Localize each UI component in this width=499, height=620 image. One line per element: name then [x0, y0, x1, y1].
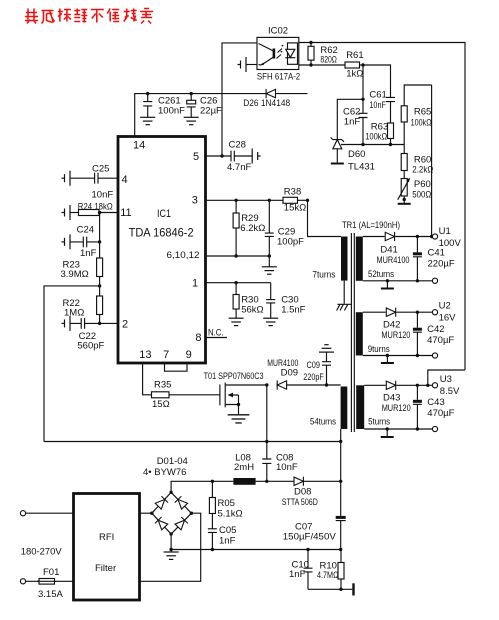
svg-text:1.5nF: 1.5nF [281, 305, 305, 316]
wire 9t bottom row [363, 355, 433, 357]
node primary bottom bus [339, 480, 342, 483]
ground T01 source [228, 415, 250, 423]
svg-text:22µF: 22µF [200, 106, 222, 117]
svg-text:4.7nF: 4.7nF [227, 162, 251, 173]
node B R63 bottom [389, 143, 392, 146]
terminal U1 [432, 226, 461, 249]
winding 7turns [312, 237, 347, 281]
svg-text:P60: P60 [414, 179, 431, 190]
svg-text:8.5V: 8.5V [440, 386, 460, 397]
wire pin5 row [206, 155, 232, 157]
node R10 bottom [339, 588, 342, 591]
node 9t gnd [386, 354, 389, 357]
wire bridge minus down [170, 534, 172, 550]
wire RFI to bridge AC1 [140, 512, 152, 514]
node C42 bottom [416, 354, 419, 357]
wire mains N [26, 580, 74, 582]
wire 52t top row [363, 236, 433, 238]
node R62 bottom [309, 63, 312, 66]
svg-text:2: 2 [122, 319, 128, 331]
terminal U3 [432, 374, 460, 397]
node C62 top [361, 98, 364, 101]
svg-text:15kΩ: 15kΩ [284, 203, 306, 214]
svg-text:100kΩ: 100kΩ [411, 118, 432, 129]
svg-text:D60: D60 [348, 149, 365, 160]
svg-text:7turns: 7turns [312, 270, 335, 281]
terminal U2 return [432, 353, 437, 358]
ground primary minus [164, 550, 179, 560]
diode D42 MUR120 [381, 308, 410, 341]
wire 9t top row [363, 311, 433, 313]
svg-text:560pF: 560pF [77, 341, 104, 352]
wire sense feedback left [44, 286, 100, 442]
capacitor C42 [413, 312, 455, 355]
wire aux winding feed [308, 200, 342, 236]
resistor R60 [401, 145, 433, 179]
svg-text:2mH: 2mH [234, 462, 254, 473]
svg-text:C43: C43 [427, 397, 444, 408]
wire U3 feedback up [428, 370, 465, 385]
transistor T01 SPP07N60C3 [204, 371, 267, 415]
svg-text:D42: D42 [383, 320, 400, 331]
terminal U3 return [432, 426, 437, 431]
capacitor C41 [413, 237, 455, 281]
capacitor C07 [283, 516, 346, 550]
capacitor C25 [62, 164, 119, 201]
ground pin 6,10,12 [262, 256, 277, 274]
optocoupler IC02 SFH 617A-2 [257, 26, 300, 83]
node pin5 [220, 154, 223, 157]
node P60 bottom [403, 198, 406, 201]
svg-text:180-270V: 180-270V [21, 547, 63, 558]
node primary bottom y442 [339, 440, 342, 443]
node C08 top [265, 440, 268, 443]
terminal U2 [432, 301, 456, 324]
wire 5t bottom row [364, 428, 432, 430]
svg-text:T01 SPP07N60C3: T01 SPP07N60C3 [204, 371, 264, 382]
ground P60 [398, 200, 411, 204]
svg-text:56kΩ: 56kΩ [241, 305, 263, 316]
diode D08 STTA 506D [282, 477, 318, 508]
node R22 bottom [98, 322, 101, 325]
svg-text:100kΩ: 100kΩ [365, 132, 387, 143]
node R23 bottom [98, 284, 101, 287]
node R29 bottom [234, 254, 237, 257]
node 52t gnd [386, 279, 389, 282]
wire pin3 row [206, 199, 284, 201]
inductor L08 [233, 453, 255, 485]
svg-text:D09: D09 [281, 368, 298, 379]
wire top feedback rail [299, 43, 465, 371]
svg-text:9: 9 [186, 349, 192, 361]
node T01 drain [265, 383, 268, 386]
resistor R24 [62, 202, 119, 221]
node U3 feedback join [426, 384, 429, 387]
svg-text:TR1 (AL=190nH): TR1 (AL=190nH) [342, 220, 400, 231]
wire drain row to winding [287, 384, 341, 386]
svg-text:MUR4100: MUR4100 [377, 255, 410, 266]
svg-text:470µF: 470µF [427, 408, 454, 419]
svg-text:470µF: 470µF [427, 335, 454, 346]
svg-text:4.7MΩ: 4.7MΩ [317, 570, 339, 581]
svg-text:TDA 16846-2: TDA 16846-2 [129, 226, 194, 240]
resistor R30 [229, 283, 264, 326]
svg-text:RFI: RFI [99, 532, 114, 543]
terminal mains N [20, 579, 25, 584]
wire R10 bottom row [308, 588, 352, 590]
red notice text [25, 9, 153, 24]
capacitor C05 [208, 525, 237, 550]
diode D41 MUR4100 [377, 232, 410, 266]
wire 52t bottom row [363, 280, 433, 282]
ground 5t return [381, 429, 394, 437]
svg-text:U2: U2 [439, 301, 451, 312]
node C43 bottom [416, 427, 419, 430]
capacitor C09 [303, 345, 334, 385]
wire drain vertical [266, 385, 268, 442]
svg-text:Filter: Filter [95, 563, 116, 574]
svg-text:C05: C05 [219, 525, 236, 536]
node U1 rail join [430, 235, 433, 238]
wire opto cathode to ground [246, 64, 257, 66]
svg-text:500Ω: 500Ω [412, 190, 431, 201]
svg-text:N.C.: N.C. [208, 328, 224, 339]
svg-text:220µF: 220µF [428, 259, 455, 270]
node C24 right [98, 240, 101, 243]
svg-text:1nF: 1nF [80, 248, 97, 259]
svg-text:14: 14 [133, 140, 145, 152]
svg-text:52turns: 52turns [368, 269, 394, 280]
node L08 bus / R05 [211, 480, 214, 483]
winding 52turns [356, 237, 394, 281]
fuse F01 3.15A [37, 567, 63, 600]
svg-text:5turns: 5turns [368, 417, 390, 428]
svg-text:3.9MΩ: 3.9MΩ [61, 269, 89, 280]
svg-text:D43: D43 [383, 393, 400, 404]
resistor R10 [317, 550, 344, 590]
ground (opto) [238, 57, 247, 72]
svg-text:16V: 16V [439, 313, 457, 324]
node C09 bottom [325, 383, 328, 386]
node C29 bottom [268, 254, 271, 257]
node C10 branch [306, 548, 309, 551]
wire U1 sense rail [431, 85, 433, 237]
capacitor C10 [289, 550, 313, 590]
svg-text:R35: R35 [154, 380, 171, 391]
wire node B row [341, 144, 404, 146]
svg-text:9turns: 9turns [368, 344, 390, 355]
capacitor C62 [343, 99, 368, 144]
wire RFI to bridge AC2 [140, 513, 201, 581]
wire pin 6,10,12 row [206, 255, 270, 257]
svg-text:D26 1N4148: D26 1N4148 [243, 98, 290, 109]
resistor R05 [209, 481, 242, 529]
diode D26 1N4148 [243, 89, 290, 109]
diode D09 MUR4100 [267, 358, 298, 390]
svg-text:U1: U1 [439, 226, 451, 237]
IC1 TDA 16846-2 [118, 137, 206, 364]
label mains voltage [21, 547, 63, 558]
svg-text:1nF: 1nF [344, 117, 361, 128]
svg-text:TL431: TL431 [348, 162, 375, 173]
svg-text:STTA 506D: STTA 506D [282, 497, 318, 508]
svg-text:820Ω: 820Ω [320, 55, 337, 66]
svg-text:1kΩ: 1kΩ [346, 69, 363, 80]
wire pin1 row [206, 282, 271, 284]
svg-text:F01: F01 [43, 567, 59, 578]
svg-text:IC1: IC1 [157, 208, 171, 220]
svg-text:C61: C61 [369, 90, 386, 101]
svg-text:6,10,12: 6,10,12 [167, 250, 200, 261]
capacitor C30 [263, 283, 305, 326]
resistor R62 [308, 43, 338, 66]
node C41 top [416, 235, 419, 238]
node C29 top [268, 199, 271, 202]
winding 9turns [356, 312, 390, 355]
svg-text:D41: D41 [380, 245, 397, 256]
svg-text:SFH 617A-2: SFH 617A-2 [257, 72, 300, 83]
svg-text:R24 18kΩ: R24 18kΩ [78, 202, 113, 213]
wire 5t top row [364, 384, 432, 386]
svg-text:54turns: 54turns [310, 417, 336, 428]
resistor R63 [365, 122, 393, 145]
svg-text:150µF/450V: 150µF/450V [283, 532, 337, 543]
wire node A down [362, 65, 364, 99]
node C05 bottom rail [211, 548, 214, 551]
svg-text:R38: R38 [284, 187, 301, 198]
svg-text:5.1kΩ: 5.1kΩ [218, 509, 243, 520]
transformer TR1 label [342, 220, 400, 231]
svg-text:IC02: IC02 [268, 26, 288, 37]
capacitor C24 [62, 225, 100, 260]
resistor R23 [61, 258, 103, 286]
wire divider vertical [99, 213, 101, 259]
node C41 bottom [416, 279, 419, 282]
svg-text:8: 8 [195, 332, 201, 344]
capacitor C29 [265, 200, 304, 256]
svg-text:R61: R61 [346, 50, 363, 61]
node R62 top [309, 41, 312, 44]
capacitor C22 [62, 316, 119, 352]
capacitor C61 [369, 90, 395, 124]
terminal U1 return [432, 278, 437, 283]
svg-text:100pF: 100pF [277, 237, 304, 248]
svg-text:C24: C24 [77, 225, 94, 236]
potentiometer P60 [398, 178, 432, 200]
node C08 bottom [265, 480, 268, 483]
svg-text:C25: C25 [92, 164, 109, 175]
svg-text:D01-04: D01-04 [157, 456, 188, 467]
ground 7turns [337, 304, 351, 310]
node C26 top [190, 92, 193, 95]
svg-text:7: 7 [163, 349, 169, 361]
svg-text:C28: C28 [229, 140, 246, 151]
svg-text:D08: D08 [294, 487, 311, 498]
node A after R61 [361, 63, 364, 66]
wire opto anode to pin5 rail [222, 43, 257, 156]
svg-text:MUR120: MUR120 [382, 403, 411, 414]
svg-text:5: 5 [193, 151, 199, 163]
svg-text:4: 4 [122, 174, 128, 186]
wire drain sense row y442 [44, 441, 341, 443]
wire ground rail y549 [171, 549, 342, 551]
node R24 right [98, 211, 101, 214]
IC1 labels [120, 140, 201, 362]
node R29 top [234, 199, 237, 202]
svg-text:10nF: 10nF [92, 190, 114, 201]
svg-text:1nF: 1nF [219, 536, 236, 547]
node R30 top [234, 281, 237, 284]
node C07 bottom [339, 548, 342, 551]
capacitor C26 [184, 94, 222, 125]
svg-text:10nF: 10nF [369, 100, 386, 111]
resistor R35 [152, 380, 220, 411]
svg-text:R05: R05 [218, 498, 235, 509]
transformer core [351, 233, 354, 432]
resistor R22 [63, 286, 103, 324]
pin 8 N.C. stub [206, 328, 228, 339]
wire pin13 to R35 [143, 363, 152, 395]
svg-text:100nF: 100nF [158, 106, 185, 117]
resistor R65 [401, 85, 431, 145]
wire opto collector row [299, 64, 345, 66]
wire 7turns return [343, 281, 345, 304]
svg-text:11: 11 [120, 207, 131, 219]
svg-text:6.2kΩ: 6.2kΩ [240, 223, 265, 234]
node 5t gnd [386, 427, 389, 430]
svg-text:10nF: 10nF [276, 462, 298, 473]
svg-text:3.15A: 3.15A [38, 589, 63, 600]
svg-text:15Ω: 15Ω [152, 399, 170, 410]
svg-text:MUR120: MUR120 [381, 330, 410, 341]
node C261 top [146, 92, 149, 95]
wire mains L [26, 512, 74, 514]
winding 54turns [310, 387, 347, 430]
resistor R61 [345, 50, 364, 80]
svg-text:3: 3 [192, 195, 198, 207]
winding 5turns [356, 385, 390, 429]
bridge rectifier D01-04 4xBYW76 [143, 456, 193, 536]
svg-text:U3: U3 [440, 374, 452, 385]
capacitor C43 [413, 385, 455, 429]
svg-text:R65: R65 [414, 107, 431, 118]
wire node A to C61 branch [363, 65, 391, 97]
shunt regulator D60 TL431 [331, 137, 375, 172]
svg-text:1: 1 [192, 278, 198, 290]
svg-text:220pF: 220pF [303, 372, 324, 383]
svg-text:2.2kΩ: 2.2kΩ [412, 165, 433, 176]
capacitor C28 [227, 140, 261, 174]
wire DC bus row y481 [171, 481, 341, 492]
svg-text:13: 13 [139, 349, 151, 361]
svg-text:C42: C42 [427, 324, 444, 335]
node R38 right [306, 199, 309, 202]
resistor R38 [283, 187, 308, 214]
resistor R29 [233, 200, 265, 256]
RFI filter [74, 494, 140, 601]
ground 52t return [381, 281, 394, 289]
terminal bar hot ground [352, 583, 354, 595]
svg-text:4• BYW76: 4• BYW76 [143, 467, 186, 478]
terminal mains L [20, 511, 25, 516]
wire pins 7-9 strap [165, 363, 188, 371]
ground 9t return [381, 356, 394, 364]
svg-text:C41: C41 [428, 248, 445, 259]
capacitor C261 [140, 94, 185, 125]
capacitor C08 [262, 442, 298, 482]
wire TL431 cathode branch [337, 99, 363, 139]
node B C62 bottom [361, 143, 364, 146]
node C43 top [416, 384, 419, 387]
node bridge minus [169, 548, 172, 551]
svg-text:1MΩ: 1MΩ [64, 308, 84, 319]
svg-text:C09: C09 [307, 360, 321, 371]
svg-text:1nF: 1nF [289, 569, 306, 580]
node C42 top [416, 311, 419, 314]
wire primary return vertical [340, 429, 342, 516]
wire VCC rail y94 [135, 94, 308, 137]
diode D43 MUR120 [382, 381, 411, 414]
